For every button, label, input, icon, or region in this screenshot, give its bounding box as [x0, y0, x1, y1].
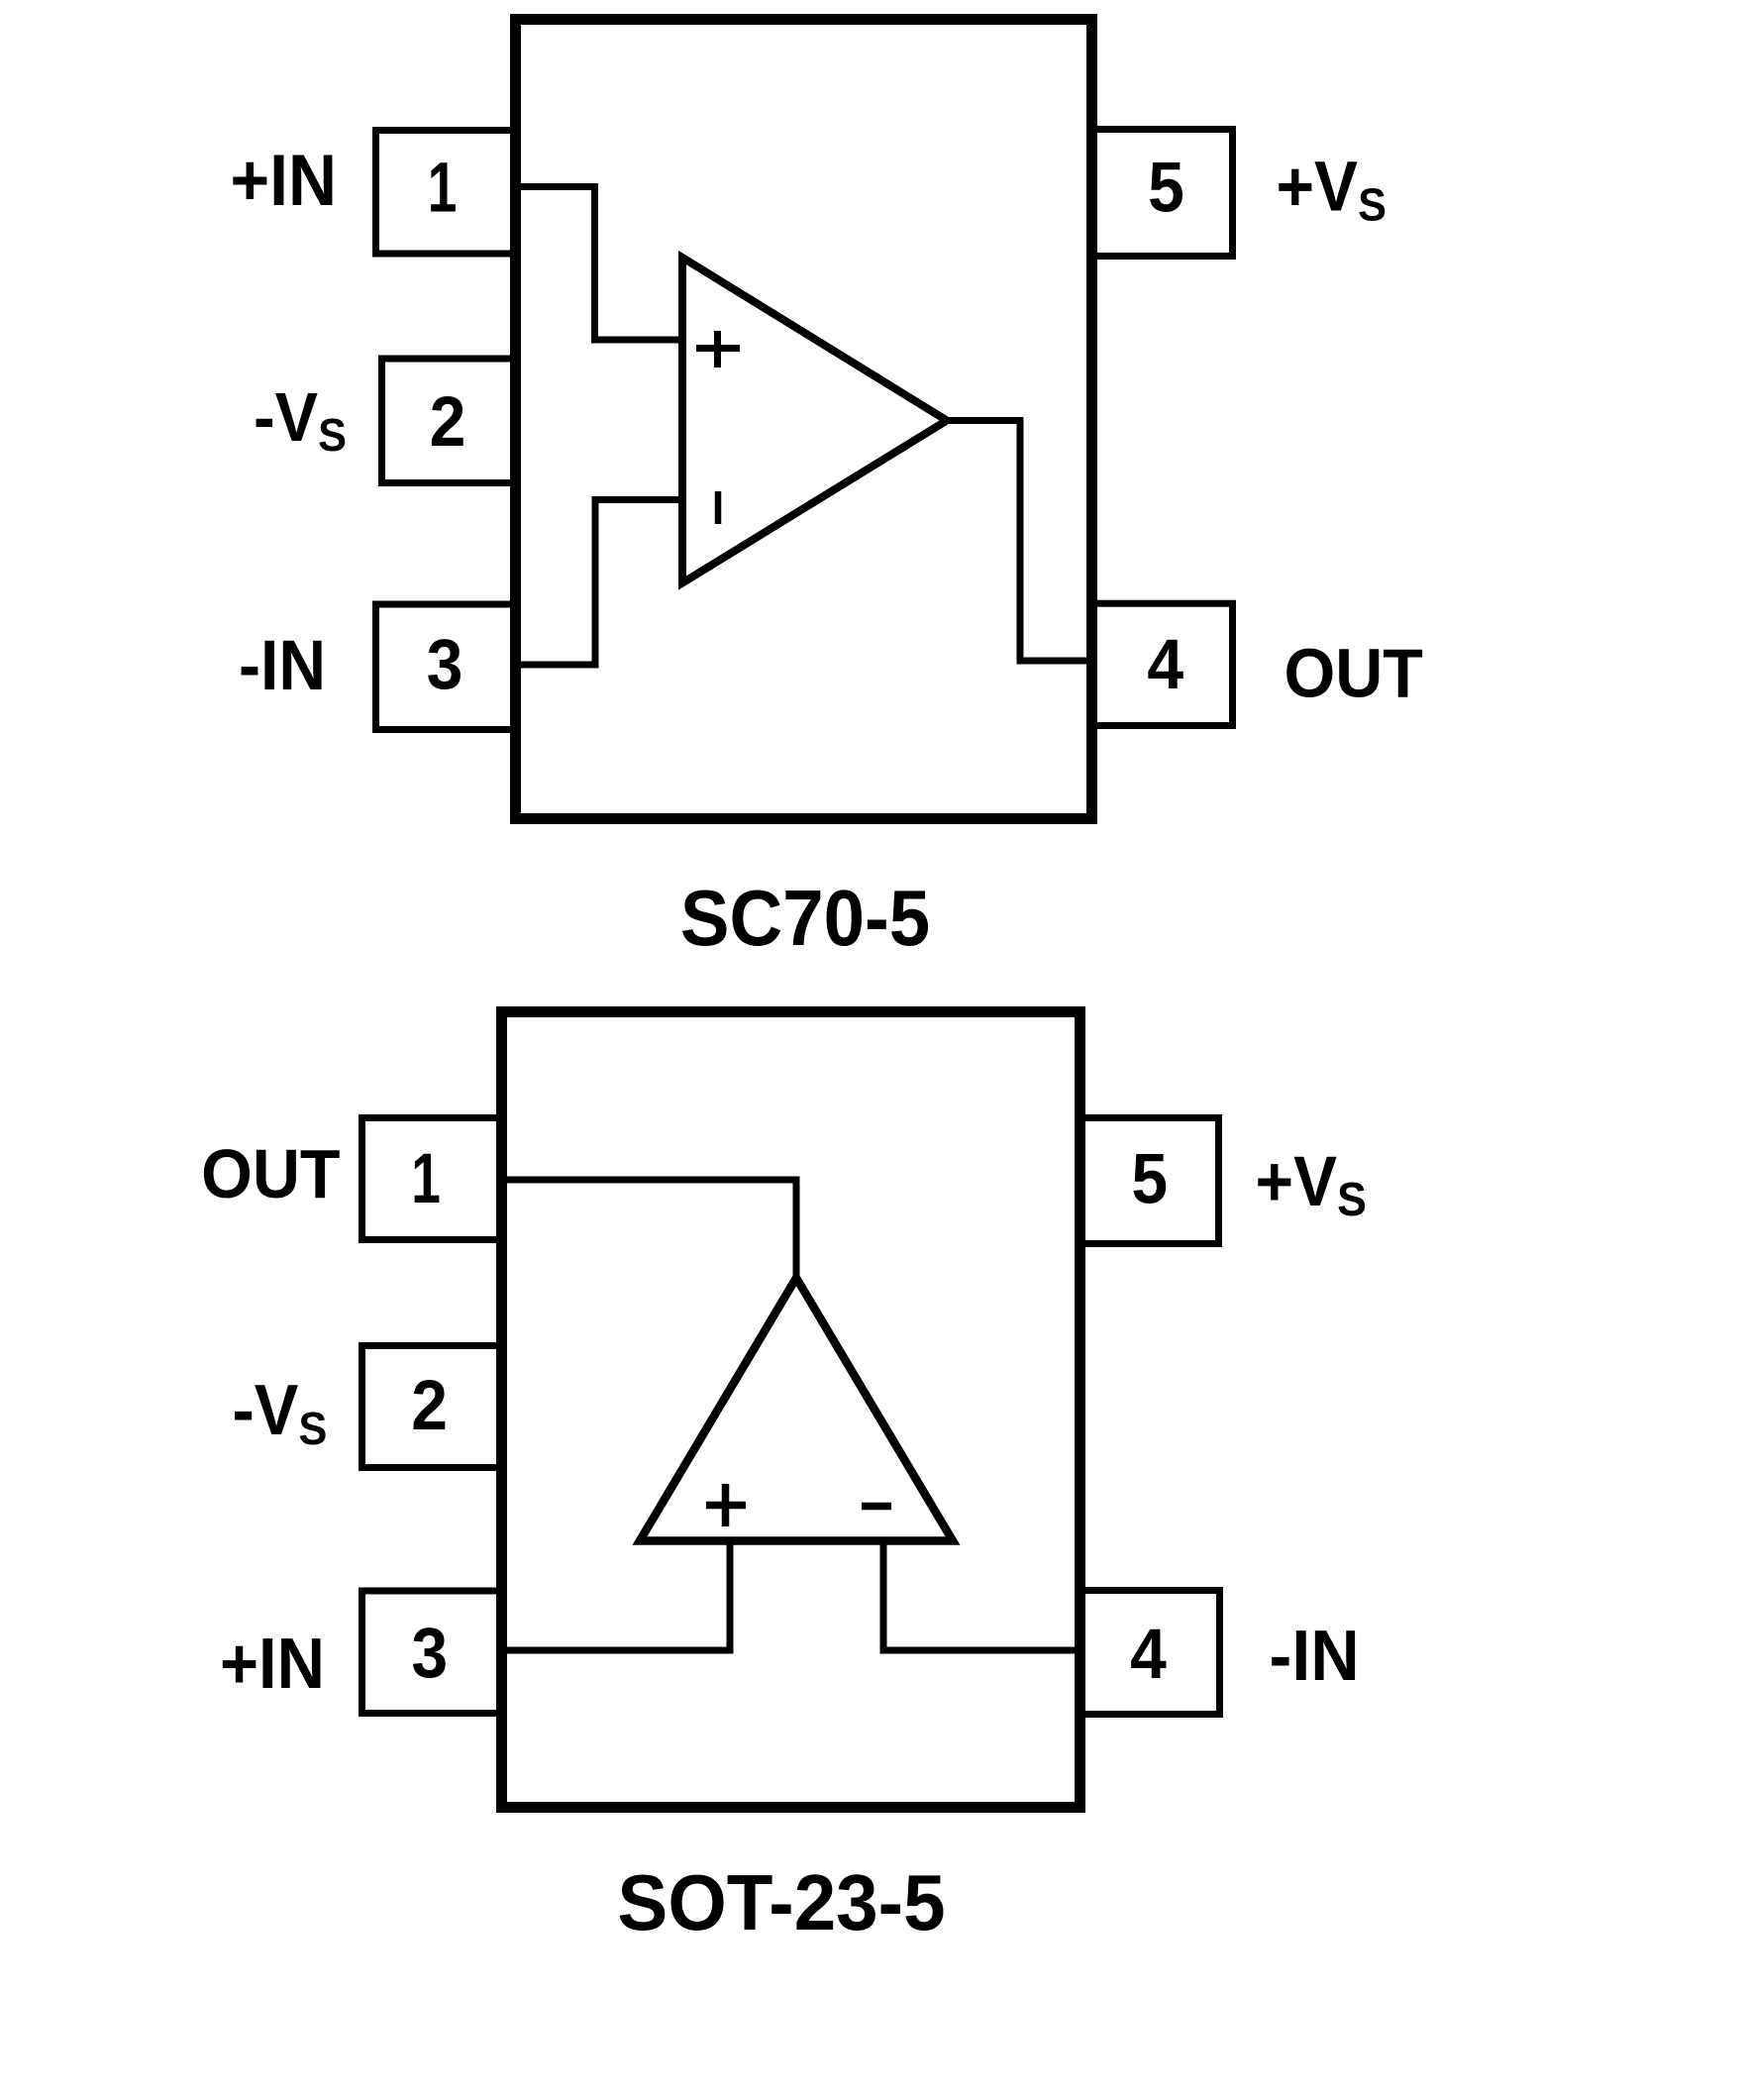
svg-text:4: 4 [1130, 1615, 1167, 1694]
svg-text:3: 3 [411, 1614, 448, 1693]
svg-text:OUT: OUT [1285, 635, 1423, 712]
svg-text:+IN: +IN [230, 140, 337, 221]
svg-text:1: 1 [411, 1140, 441, 1218]
svg-text:2: 2 [411, 1366, 448, 1445]
svg-text:5: 5 [1148, 148, 1184, 227]
svg-text:3: 3 [427, 625, 463, 704]
svg-text:SOT-23-5: SOT-23-5 [617, 1857, 945, 1946]
svg-text:4: 4 [1147, 625, 1183, 704]
svg-text:5: 5 [1131, 1139, 1168, 1218]
svg-text:-IN: -IN [239, 626, 326, 705]
svg-text:2: 2 [430, 382, 466, 462]
svg-text:1: 1 [428, 149, 458, 227]
svg-text:+IN: +IN [220, 1624, 325, 1704]
svg-text:SC70-5: SC70-5 [680, 875, 930, 963]
svg-text:-IN: -IN [1270, 1615, 1360, 1695]
svg-text:OUT: OUT [201, 1135, 340, 1212]
